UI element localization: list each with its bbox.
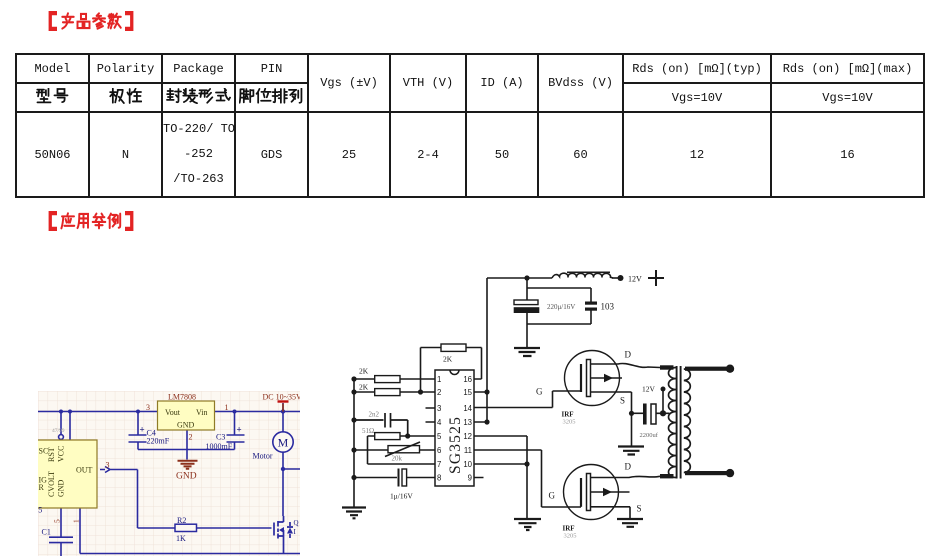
svg-text:5: 5 xyxy=(437,432,442,441)
svg-text:6: 6 xyxy=(437,446,441,455)
svg-text:20k: 20k xyxy=(392,455,403,463)
svg-text:S: S xyxy=(637,504,642,514)
svg-text:12: 12 xyxy=(463,432,472,441)
svg-text:GND: GND xyxy=(177,421,195,430)
svg-text:5: 5 xyxy=(53,519,62,523)
svg-text:1000mF: 1000mF xyxy=(206,442,233,451)
svg-text:C1: C1 xyxy=(42,528,51,537)
svg-text:220μ/16V: 220μ/16V xyxy=(547,303,575,311)
svg-text:5: 5 xyxy=(38,506,42,515)
svg-text:GND: GND xyxy=(176,472,197,482)
svg-text:15: 15 xyxy=(463,388,472,397)
svg-text:2K: 2K xyxy=(359,367,369,376)
svg-text:8: 8 xyxy=(437,474,441,483)
svg-text:7: 7 xyxy=(437,460,441,469)
svg-text:220mF: 220mF xyxy=(147,437,170,446)
svg-text:13: 13 xyxy=(463,418,472,427)
svg-text:12V: 12V xyxy=(642,385,656,394)
svg-text:2: 2 xyxy=(437,388,441,397)
svg-text:2200uf: 2200uf xyxy=(640,432,659,439)
svg-text:+: + xyxy=(140,425,145,435)
svg-text:D: D xyxy=(625,350,632,360)
svg-text:11: 11 xyxy=(464,446,472,455)
svg-text:DC 10~35V: DC 10~35V xyxy=(263,393,301,402)
svg-text:G: G xyxy=(549,491,556,501)
svg-text:IRF: IRF xyxy=(563,525,575,533)
svg-text:S: S xyxy=(620,396,625,406)
svg-text:103: 103 xyxy=(601,302,615,312)
svg-text:SG3525: SG3525 xyxy=(447,416,464,474)
svg-text:M: M xyxy=(278,436,289,450)
svg-text:D: D xyxy=(625,462,632,472)
svg-text:Q: Q xyxy=(294,519,299,527)
svg-text:R: R xyxy=(39,483,45,492)
svg-text:3: 3 xyxy=(146,403,150,412)
svg-text:Vin: Vin xyxy=(196,408,208,417)
svg-text:OUT: OUT xyxy=(76,466,93,475)
svg-text:CVOLT: CVOLT xyxy=(47,471,56,497)
svg-text:16: 16 xyxy=(463,375,472,384)
svg-text:1: 1 xyxy=(225,403,229,412)
svg-text:3205: 3205 xyxy=(564,533,577,540)
svg-text:47/99: 47/99 xyxy=(52,428,65,434)
svg-text:1K: 1K xyxy=(176,534,186,543)
svg-text:10: 10 xyxy=(463,460,472,469)
svg-text:9: 9 xyxy=(468,474,472,483)
svg-text:14: 14 xyxy=(463,404,472,413)
svg-text:2n2: 2n2 xyxy=(369,411,380,419)
svg-text:G: G xyxy=(536,387,543,397)
svg-text:IRF: IRF xyxy=(562,411,574,419)
svg-text:+: + xyxy=(237,425,242,435)
svg-text:2: 2 xyxy=(189,433,193,442)
svg-text:51Ω: 51Ω xyxy=(362,427,374,435)
svg-text:VCC: VCC xyxy=(57,446,66,462)
svg-text:R2: R2 xyxy=(177,516,186,525)
svg-text:3: 3 xyxy=(437,404,441,413)
svg-text:Motor: Motor xyxy=(253,452,273,461)
svg-text:1μ/16V: 1μ/16V xyxy=(390,492,413,501)
svg-text:1: 1 xyxy=(437,375,441,384)
svg-text:12V: 12V xyxy=(628,275,642,284)
svg-text:GND: GND xyxy=(57,479,66,497)
svg-text:3205: 3205 xyxy=(563,419,576,426)
svg-text:C3: C3 xyxy=(216,433,225,442)
svg-text:1: 1 xyxy=(72,519,81,523)
svg-text:2K: 2K xyxy=(359,383,369,392)
svg-text:4: 4 xyxy=(437,418,442,427)
svg-text:2K: 2K xyxy=(443,355,453,364)
svg-text:RST: RST xyxy=(47,447,56,462)
svg-text:3: 3 xyxy=(106,461,110,470)
svg-text:Vout: Vout xyxy=(165,408,181,417)
svg-text:LM7808: LM7808 xyxy=(168,393,196,402)
